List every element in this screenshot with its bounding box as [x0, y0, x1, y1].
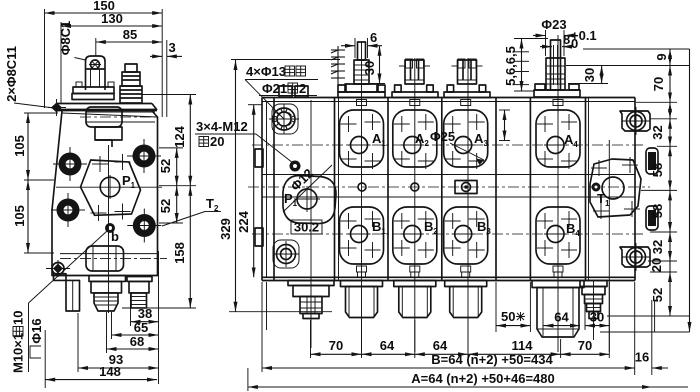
svg-text:158: 158 — [172, 242, 187, 264]
port labels — [358, 129, 601, 238]
svg-text:10: 10 — [11, 311, 26, 325]
dim 93 — [78, 367, 159, 369]
leader M10 — [29, 231, 108, 303]
dim 68 — [107, 348, 159, 350]
dim 150 — [45, 12, 163, 14]
svg-text:105: 105 — [12, 205, 27, 227]
center dash-dot rows — [252, 144, 645, 146]
bottom-left bolt — [277, 245, 296, 264]
dim 65 — [112, 334, 159, 336]
top brackets — [279, 86, 292, 97]
dim 148 — [45, 379, 157, 381]
svg-text:3: 3 — [169, 40, 176, 55]
svg-text:M10×1: M10×1 — [11, 333, 26, 373]
P1 boss — [283, 176, 336, 224]
dim 50 ref — [496, 325, 530, 327]
svg-text:52: 52 — [158, 159, 173, 173]
svg-text:30: 30 — [362, 61, 377, 75]
U-cap top tabs and tube ribs — [406, 59, 566, 141]
top-right horizontals — [583, 48, 690, 50]
svg-text:2×Φ8C11: 2×Φ8C11 — [4, 46, 19, 102]
svg-text:50: 50 — [501, 309, 515, 324]
svg-text:38: 38 — [138, 306, 152, 321]
dim 16 — [652, 367, 668, 369]
30.2 box — [291, 220, 322, 234]
sections 2,3 top: U caps — [392, 60, 490, 98]
dim 158 — [189, 186, 191, 308]
top bolt bracket — [620, 111, 650, 131]
svg-text:Φ8C1: Φ8C1 — [58, 21, 73, 56]
svg-text:4×Φ13: 4×Φ13 — [246, 64, 286, 79]
section 4 top: Phi23 screw — [534, 40, 580, 97]
svg-text:58: 58 — [650, 204, 665, 218]
svg-text:70: 70 — [651, 77, 666, 91]
counterbore bolt 4xPhi13 — [273, 108, 295, 130]
left lug — [66, 280, 80, 311]
dim A= — [248, 386, 652, 388]
dim B= — [262, 367, 635, 369]
bottom internal steps — [60, 253, 158, 255]
right ext lines — [636, 101, 677, 103]
svg-text:30.2: 30.2 — [294, 220, 319, 235]
right cap — [127, 277, 152, 282]
inlet section details — [255, 86, 336, 348]
svg-text:6: 6 — [370, 30, 377, 45]
dim 130 — [61, 25, 162, 27]
body block — [262, 97, 635, 99]
svg-text:114: 114 — [512, 338, 534, 353]
left clamp diamond — [51, 103, 62, 113]
svg-text:64: 64 — [380, 338, 395, 353]
section 4 tall cup — [532, 281, 584, 338]
dim 329 — [235, 60, 237, 312]
svg-text:Φ25: Φ25 — [430, 129, 455, 144]
dim 105 x2 — [27, 113, 29, 180]
svg-text:68: 68 — [130, 334, 144, 349]
stepped bolt — [125, 64, 137, 72]
dim 30 (right) — [601, 66, 603, 84]
svg-text:85: 85 — [123, 27, 137, 42]
dim 38 — [131, 321, 159, 323]
main chain 70/64/64/114/70 — [311, 353, 362, 355]
svg-text:Φ16: Φ16 — [29, 318, 44, 343]
right side chain — [669, 102, 671, 119]
svg-text:70: 70 — [329, 338, 343, 353]
P1 circle — [100, 177, 120, 197]
svg-text:52: 52 — [158, 199, 173, 213]
dim 85 — [96, 41, 162, 43]
svg-text:9: 9 — [654, 53, 669, 60]
dim 52 a — [176, 148, 178, 186]
section 1 top: adjusting screw + spring symbol — [331, 42, 385, 98]
svg-text:3×4-M12: 3×4-M12 — [196, 119, 248, 134]
port hexagon boss — [81, 160, 141, 215]
top mounting plate — [56, 103, 152, 105]
svg-text:8: 8 — [563, 32, 570, 47]
port b — [105, 223, 115, 233]
svg-text:124: 124 — [172, 125, 187, 147]
dim 6 (top of section1) — [341, 45, 355, 47]
dim 9 / 70 right column — [669, 49, 671, 66]
dim 30 (plug) — [585, 325, 609, 327]
svg-text:30: 30 — [590, 310, 604, 325]
dim 224 — [253, 105, 255, 278]
svg-text:0: 0 — [571, 36, 578, 51]
svg-text:148: 148 — [99, 364, 121, 379]
T1 boss — [590, 159, 641, 217]
center cap assembly — [89, 276, 126, 282]
small dark bolt — [290, 161, 301, 172]
dim 5,6,65 chain — [521, 39, 523, 92]
svg-text:65: 65 — [134, 320, 148, 335]
svg-text:20: 20 — [210, 134, 224, 149]
A and B port bosses — [340, 35, 581, 352]
bottom cups — [288, 281, 334, 319]
inlet cup — [288, 281, 334, 286]
svg-text:58: 58 — [650, 163, 665, 177]
svg-text:64: 64 — [433, 338, 448, 353]
svg-text:130: 130 — [101, 11, 123, 26]
svg-text:32: 32 — [650, 125, 665, 139]
small depth dim in gap strip — [504, 110, 506, 141]
Phi12 diagonal — [283, 165, 332, 212]
svg-text:224: 224 — [236, 210, 251, 232]
dim 52 b — [176, 186, 178, 223]
spring symbol — [337, 46, 339, 88]
svg-text:Φ23: Φ23 — [541, 17, 566, 32]
vertical centerline — [108, 145, 110, 313]
T1 outlet section — [590, 107, 658, 352]
side flanges — [646, 148, 658, 174]
svg-text:Φ21: Φ21 — [262, 81, 287, 96]
ports (black) — [53, 147, 87, 181]
left plate ears — [255, 149, 263, 167]
body outline — [52, 111, 158, 276]
section boundary lines — [334, 98, 336, 281]
middle small circles — [358, 183, 366, 191]
svg-text:329: 329 — [218, 218, 233, 240]
bolt bosses on inlet — [272, 104, 298, 134]
dim 64 (cup) — [544, 325, 581, 327]
bottom bolt — [620, 247, 650, 267]
svg-text:b: b — [111, 229, 119, 244]
dim 30 (section1) — [379, 46, 381, 84]
T end plug — [580, 280, 607, 340]
svg-text:32: 32 — [650, 240, 665, 254]
svg-text:30: 30 — [582, 68, 597, 82]
svg-text:B=64 (n+2) +50=434: B=64 (n+2) +50=434 — [431, 352, 553, 367]
svg-text:105: 105 — [12, 135, 27, 157]
bottom-left clamp bolt — [53, 264, 63, 274]
spool housing section — [86, 107, 122, 127]
svg-text:64: 64 — [554, 310, 569, 325]
svg-text:20: 20 — [649, 258, 664, 272]
dim 124 — [189, 95, 191, 186]
svg-text:16: 16 — [635, 350, 649, 365]
svg-text:A=64 (n+2) +50+46=480: A=64 (n+2) +50+46=480 — [411, 371, 554, 386]
svg-text:70: 70 — [578, 338, 592, 353]
dim 3 — [166, 40, 168, 117]
gallery lines — [262, 174, 635, 176]
svg-text:2: 2 — [299, 81, 306, 96]
relief valve screw — [86, 56, 106, 90]
